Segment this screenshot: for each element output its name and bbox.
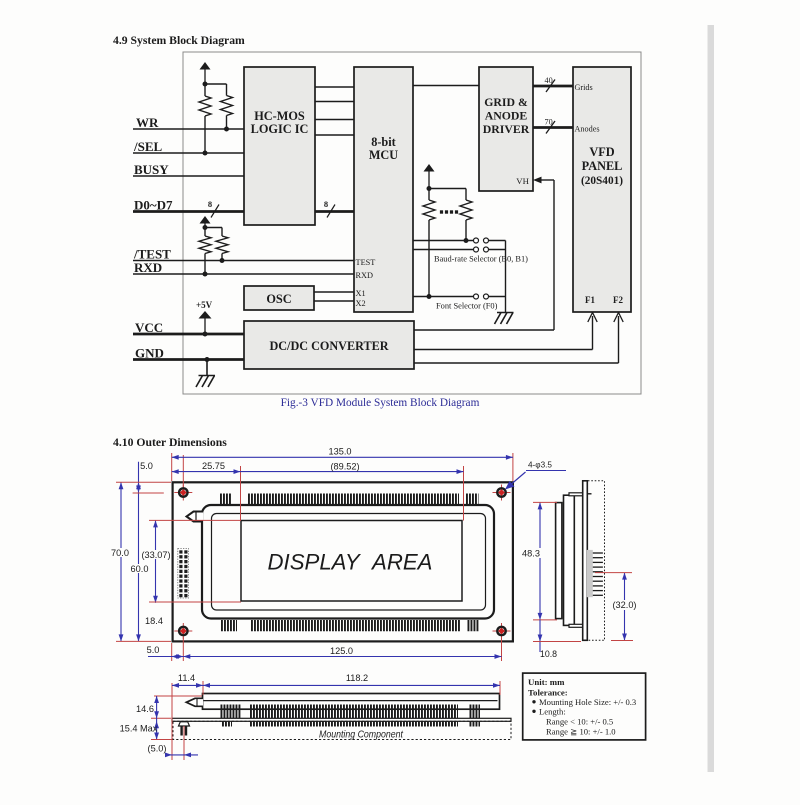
node on F0 line xyxy=(427,294,432,299)
svg-text:Font Selector (F0): Font Selector (F0) xyxy=(436,302,498,311)
svg-text:Mounting Hole Size: +/- 0.3: Mounting Hole Size: +/- 0.3 xyxy=(539,697,636,707)
bezel tongue wedge xyxy=(187,512,204,522)
wire xyxy=(489,240,506,242)
svg-text:DC/DC CONVERTER: DC/DC CONVERTER xyxy=(269,339,388,353)
scan edge strip xyxy=(708,25,715,772)
svg-text:DRIVER: DRIVER xyxy=(483,122,530,136)
svg-text:RXD: RXD xyxy=(356,271,374,280)
wire Anodes bus xyxy=(533,126,573,129)
svg-text:Tolerance:: Tolerance: xyxy=(528,688,568,698)
svg-text:8-bit: 8-bit xyxy=(371,135,396,149)
svg-text:5.0: 5.0 xyxy=(140,461,153,471)
node on GND xyxy=(205,357,210,362)
wire selector common xyxy=(505,241,507,313)
dim 135.0 xyxy=(172,456,513,458)
svg-text:Fig.-3 VFD Module System Block: Fig.-3 VFD Module System Block Diagram xyxy=(281,397,480,409)
wire D0~D7 bus xyxy=(133,210,244,213)
wire gnd stub xyxy=(206,360,208,376)
diagram border frame xyxy=(183,52,641,394)
bus slash 8 (left) xyxy=(211,205,219,218)
wire WR xyxy=(133,128,244,130)
side dim 48.3 xyxy=(539,502,541,620)
node N3 xyxy=(427,186,432,191)
wire Grids bus xyxy=(533,85,573,88)
bezel outer xyxy=(202,505,494,619)
block U1 HC-MOS LOGIC IC xyxy=(244,67,315,225)
svg-text:135.0: 135.0 xyxy=(329,447,352,457)
svg-text:F2: F2 xyxy=(613,295,623,305)
resistor R5 xyxy=(428,189,430,201)
svg-text:DISPLAY AREA: DISPLAY AREA xyxy=(268,550,433,575)
svg-text:GRID &: GRID & xyxy=(484,95,528,109)
wires OSC X1 X2 xyxy=(314,291,354,293)
tolerance box xyxy=(523,673,646,740)
svg-text:X2: X2 xyxy=(356,299,366,308)
bottom dim 11.4 xyxy=(171,683,173,760)
bottom dim 118.2 xyxy=(203,684,500,686)
wire DC/DC to VH xyxy=(414,329,554,331)
wire branch xyxy=(205,83,227,85)
side step tabs xyxy=(569,493,583,496)
svg-text:Grids: Grids xyxy=(575,83,593,92)
svg-text:Unit: mm: Unit: mm xyxy=(528,677,565,687)
wire DC/DC to F2 xyxy=(414,362,619,364)
wire xyxy=(226,116,228,130)
svg-text:125.0: 125.0 xyxy=(330,646,353,656)
bottom dim (5.0) xyxy=(183,726,185,760)
power arrow P1 xyxy=(204,68,206,84)
svg-text:60.0: 60.0 xyxy=(131,564,149,574)
svg-text:18.4: 18.4 xyxy=(145,616,163,626)
svg-text:48.3: 48.3 xyxy=(522,549,540,559)
svg-text:+5V: +5V xyxy=(196,300,213,310)
svg-text:40: 40 xyxy=(545,76,553,85)
slash 40 xyxy=(546,80,555,93)
node on /TEST xyxy=(220,258,225,263)
mounting leg xyxy=(179,722,190,726)
node on /SEL xyxy=(203,151,208,156)
dim 18.4 xyxy=(144,616,165,625)
svg-text:LOGIC IC: LOGIC IC xyxy=(251,122,309,136)
switch contacts F0 xyxy=(474,294,479,299)
slash 70 xyxy=(546,121,555,134)
wire xyxy=(204,116,206,153)
svg-text:PANEL: PANEL xyxy=(582,159,623,173)
wire DC/DC to F1 xyxy=(414,349,593,351)
bottom view pin comb xyxy=(221,705,241,719)
display window xyxy=(241,521,462,602)
svg-text:RXD: RXD xyxy=(134,260,162,275)
svg-text:11.4: 11.4 xyxy=(178,673,195,683)
svg-text:5.0: 5.0 xyxy=(147,645,160,655)
resistor R4 xyxy=(216,236,228,254)
dim 5.0 bottom xyxy=(171,643,173,661)
svg-text:(33.07): (33.07) xyxy=(141,550,170,560)
svg-text:WR: WR xyxy=(136,115,159,130)
wire xyxy=(465,220,467,241)
module outline xyxy=(173,482,513,641)
side PCB bar xyxy=(583,481,588,641)
svg-text:TEST: TEST xyxy=(356,258,376,267)
mounting component dashed box xyxy=(173,721,511,739)
ground symbol xyxy=(199,375,216,377)
ext lines red (front top) xyxy=(171,453,173,481)
block U2 8-bit MCU xyxy=(354,67,413,312)
dim (33.07) xyxy=(155,520,157,602)
bottom pin comb xyxy=(221,620,237,631)
side dim (32.0) xyxy=(624,573,626,641)
switch contacts B0 xyxy=(474,238,479,243)
resistor R1 xyxy=(204,84,206,96)
svg-text:70: 70 xyxy=(545,118,553,127)
svg-text:VH: VH xyxy=(516,176,529,186)
wire branch xyxy=(429,188,466,190)
power arrow P3 xyxy=(428,170,430,189)
bus slash 8 (right) xyxy=(327,205,335,218)
dim (89.52) xyxy=(241,471,464,473)
svg-text:14.6: 14.6 xyxy=(136,704,154,714)
resistor R3 xyxy=(204,228,206,237)
dim 70.0 xyxy=(120,482,122,641)
wire RXD xyxy=(133,273,354,275)
node N2 xyxy=(203,225,208,230)
wire xyxy=(204,254,206,275)
side glass layer A xyxy=(556,503,562,619)
switch contacts B1 xyxy=(474,247,479,252)
wire GND xyxy=(133,358,244,361)
bottom dim 15.4 Max xyxy=(154,721,159,728)
ext red at hole center left xyxy=(133,492,164,494)
wire xyxy=(221,254,223,261)
block U3 GRID & ANODE DRIVER xyxy=(479,67,533,191)
svg-text:15.4 Max: 15.4 Max xyxy=(120,724,158,734)
top pin comb xyxy=(220,494,231,505)
svg-text:VFD: VFD xyxy=(589,145,614,159)
side pin block xyxy=(587,550,593,597)
bottom dim 14.6 xyxy=(154,695,202,697)
svg-text:4.9 System Block Diagram: 4.9 System Block Diagram xyxy=(113,34,245,47)
node on B0 line xyxy=(464,238,469,243)
bezel inner xyxy=(212,514,486,611)
wire branch xyxy=(205,227,222,229)
mounting hole top-right xyxy=(493,492,511,494)
resistor R6 xyxy=(460,200,472,220)
block U5 OSC xyxy=(244,286,314,310)
node on WR xyxy=(224,127,229,132)
svg-text:/SEL: /SEL xyxy=(133,139,163,154)
svg-text:(20S401): (20S401) xyxy=(581,175,623,187)
bottom view PCB xyxy=(172,718,511,721)
mounting hole bottom-left xyxy=(174,630,192,632)
wire xyxy=(489,249,506,251)
dim 125.0 xyxy=(183,654,190,659)
svg-text:OSC: OSC xyxy=(266,292,291,306)
side glass layer B xyxy=(564,495,575,625)
svg-text:(5.0): (5.0) xyxy=(148,744,167,754)
wire xyxy=(489,296,506,298)
svg-text:Mounting Component: Mounting Component xyxy=(319,729,404,741)
wire VCC xyxy=(133,333,244,336)
side view dotted envelope xyxy=(585,481,605,641)
svg-text:Length:: Length: xyxy=(539,707,566,717)
top stub xyxy=(587,493,591,495)
wire F0 xyxy=(413,296,474,298)
svg-text:MCU: MCU xyxy=(369,148,398,162)
dim 25.75 xyxy=(172,471,241,473)
svg-text:25.75: 25.75 xyxy=(202,461,225,471)
ground selector xyxy=(497,312,514,314)
bottom view wedge xyxy=(186,698,203,706)
wires HC-MOS to MCU xyxy=(315,86,354,88)
svg-text:BUSY: BUSY xyxy=(134,162,169,177)
node N1 xyxy=(203,82,208,87)
svg-text:HC-MOS: HC-MOS xyxy=(254,109,305,123)
svg-text:Anodes: Anodes xyxy=(575,125,600,134)
wire /SEL xyxy=(133,152,244,154)
svg-text:Baud-rate Selector (B0, B1): Baud-rate Selector (B0, B1) xyxy=(434,255,528,264)
svg-text:4.10 Outer Dimensions: 4.10 Outer Dimensions xyxy=(113,436,227,449)
power arrow P2 xyxy=(204,222,206,228)
svg-text:ANODE: ANODE xyxy=(485,109,528,123)
svg-text:118.2: 118.2 xyxy=(346,673,368,683)
svg-text:F1: F1 xyxy=(585,295,595,305)
resistor R2 xyxy=(221,96,233,116)
wire /TEST xyxy=(133,260,354,262)
svg-text:(32.0): (32.0) xyxy=(612,600,636,610)
svg-text:Range ≧ 10: +/- 1.0: Range ≧ 10: +/- 1.0 xyxy=(546,727,616,737)
bottom view glass body xyxy=(203,694,500,710)
svg-text:70.0: 70.0 xyxy=(111,548,129,558)
svg-text:8: 8 xyxy=(324,199,328,209)
svg-text:8: 8 xyxy=(208,199,212,209)
svg-text:(89.52): (89.52) xyxy=(330,462,359,472)
node on RXD xyxy=(203,272,208,277)
bottom view pin stubs below PCB xyxy=(222,721,232,726)
svg-text:4-φ3.5: 4-φ3.5 xyxy=(528,461,552,470)
wire BUSY xyxy=(133,175,244,177)
block U4 VFD PANEL (20S401) xyxy=(573,67,631,312)
ellipsis dots between resistors xyxy=(440,210,443,213)
side dim 10.8 xyxy=(539,620,541,652)
wire MCU to GRID driver xyxy=(413,85,479,87)
node on VCC xyxy=(203,332,208,337)
svg-text:Range < 10: +/- 0.5: Range < 10: +/- 0.5 xyxy=(546,717,613,727)
left connector pin field xyxy=(178,549,189,599)
block U6 DC/DC CONVERTER xyxy=(244,321,414,369)
wire xyxy=(428,220,430,297)
svg-text:10.8: 10.8 xyxy=(540,649,557,659)
mounting hole top-left xyxy=(174,492,192,494)
svg-text:X1: X1 xyxy=(356,289,366,298)
dim 5.0 top-left + 60.0 shared vertical xyxy=(138,462,140,642)
mounting hole bottom-right xyxy=(493,630,511,632)
wire B0 xyxy=(413,240,474,242)
wire B1 xyxy=(413,249,474,251)
